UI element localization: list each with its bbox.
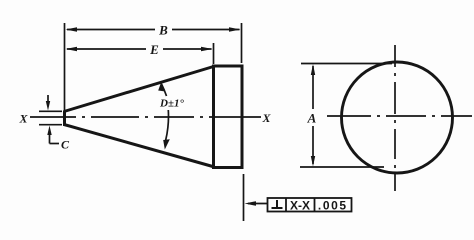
- cylindrical big end rectangle: [214, 66, 243, 168]
- top extension line for A: [301, 63, 392, 65]
- angle dimension arc upper segment: [162, 84, 167, 96]
- svg-text:X: X: [261, 111, 271, 125]
- dimension B line: [67, 29, 155, 31]
- dimension C top extension line: [39, 110, 62, 112]
- cone bottom edge: [64, 125, 215, 168]
- feature control frame divider 2: [314, 198, 316, 212]
- feature control frame divider 1: [285, 198, 287, 212]
- svg-text:D±1°: D±1°: [159, 98, 184, 110]
- circle (end view): [342, 62, 453, 173]
- svg-text:C: C: [61, 138, 70, 152]
- svg-text:E: E: [149, 42, 159, 57]
- perpendicularity symbol: [272, 200, 283, 208]
- centerline X-X: [30, 116, 261, 118]
- dimension C upper arrow (pointing down): [47, 95, 49, 105]
- vertical centerline of circle: [394, 45, 396, 191]
- extension line right for E: [213, 43, 215, 64]
- dimension C leader foot: [50, 143, 60, 145]
- angle dimension arc lower segment: [166, 110, 169, 141]
- cone small end face: [63, 111, 66, 127]
- datum extension line to feature control frame: [243, 174, 245, 221]
- extension line left (small end, for B and E): [64, 23, 66, 111]
- bottom extension line for A: [300, 166, 384, 168]
- dimension C bottom extension line: [39, 124, 62, 126]
- feature control frame leader: [248, 203, 267, 205]
- feature control frame leader arrowhead: [245, 201, 257, 206]
- feature control frame box: [268, 198, 352, 212]
- dimension B right arrowhead: [229, 27, 241, 32]
- dimension B left arrowhead: [66, 27, 78, 32]
- dimension A top arrowhead: [311, 64, 315, 75]
- svg-text:A: A: [307, 111, 317, 126]
- cone top edge: [64, 67, 214, 112]
- dimension C lower arrow (pointing up): [49, 134, 51, 144]
- dimension E line: [67, 48, 146, 50]
- horizontal centerline of circle: [327, 115, 472, 117]
- angle dimension lower arrowhead: [163, 139, 170, 149]
- svg-text:X: X: [18, 112, 28, 126]
- dimension A line: [312, 66, 314, 109]
- dimension E right arrowhead: [201, 47, 213, 52]
- angle dimension upper arrowhead: [158, 82, 165, 92]
- svg-text:X-X: X-X: [290, 199, 310, 213]
- dimension A bottom arrowhead: [311, 156, 315, 167]
- dimension E left arrowhead: [66, 47, 78, 52]
- extension line right for B: [241, 23, 243, 63]
- svg-text:.005: .005: [318, 199, 348, 213]
- svg-text:B: B: [158, 23, 168, 38]
